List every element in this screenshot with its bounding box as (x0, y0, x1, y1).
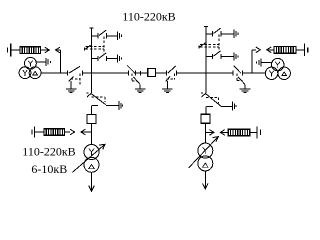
circuit breaker Q3 (jumper) (148, 69, 156, 77)
ground of QS6 (233, 102, 237, 111)
load arrow right (203, 171, 209, 189)
wire jumper mid-left (83, 72, 129, 74)
wire (250, 131, 257, 133)
ground of QSG3 (234, 30, 238, 38)
wire with arrow to line W1 (41, 47, 50, 53)
wire (11, 49, 20, 51)
ground of QS1 knife (66, 89, 77, 93)
svg-text:6-10кВ: 6-10кВ (31, 162, 67, 176)
wire feeder right (251, 50, 253, 73)
ground of QS5 (119, 101, 123, 110)
left bus upper (91, 28, 93, 93)
ground of QSG1 (117, 32, 121, 40)
earthing knife of QS2 (133, 77, 140, 89)
earthing knife of QS5 (86, 93, 91, 97)
wire (135, 72, 147, 74)
neutral ground of T4 (257, 58, 272, 66)
line trap L1 (top left) (20, 47, 41, 54)
earthing knife of QS3 (166, 76, 171, 88)
jumper wire left (41, 72, 67, 74)
linkage dashes QS6 (206, 98, 218, 104)
disconnector QS1 (jumper left) (67, 66, 82, 75)
ground of QS3 knife (162, 89, 173, 93)
disconnector QS2 (jumper, left of breaker) (127, 66, 140, 76)
arrow to consumers left (81, 129, 92, 135)
earthing knife of QS6 (201, 93, 206, 97)
wire (156, 72, 167, 74)
transformer T4 (3-winding, right) (265, 58, 290, 79)
earthing knife right bus (199, 43, 205, 48)
linkage dashes QS3 (166, 74, 174, 80)
line trap L2 (bottom left) (44, 129, 64, 136)
coupling capacitor CC2 (bottom left) (32, 127, 35, 138)
load arrow left (89, 172, 95, 191)
linkage dashes QS2 (132, 74, 137, 82)
arrow to consumers right (206, 130, 214, 136)
right bus top tick (204, 26, 208, 28)
line trap L3 (bottom right) (228, 129, 250, 136)
ground of QS4 knife (240, 89, 251, 93)
left bus to breaker (91, 106, 93, 115)
left bus top tick (90, 27, 94, 29)
earthing switch QSG2 (left bus, lower) (92, 53, 118, 61)
ground of QSG2 (117, 54, 121, 62)
earthing knife of QS4 (238, 77, 245, 89)
linkage dashes left bus (86, 36, 104, 54)
linkage dashes QS5 (92, 97, 105, 102)
earthing knife left bus (85, 45, 91, 50)
ground of QSG4 (234, 52, 238, 60)
line trap L4 (top right) (274, 47, 296, 54)
wire with arrow (line trap branch left) (64, 129, 74, 135)
wire feeder left (59, 50, 61, 73)
arrow from line W1 (56, 47, 61, 53)
wire (296, 49, 304, 51)
arrow from line W2 (top right) (252, 47, 260, 53)
linkage dashes QS1 (71, 74, 80, 85)
coupling capacitor CC4 (top right) (305, 44, 308, 57)
disconnector QS6 (right bus, below jumper) (206, 94, 233, 107)
linkage dashes QS4 (237, 74, 242, 81)
svg-text:110-220кВ: 110-220кВ (22, 145, 75, 159)
earthing switch QSG3 (right bus, upper) (206, 28, 234, 36)
earthing knife of QS1 (69, 76, 74, 88)
circuit breaker Q1 (left) (87, 115, 96, 124)
disconnector QS4 (jumper right) (233, 66, 242, 76)
transformer T3 (right block) (198, 143, 213, 171)
disconnector QS5 (left bus, below jumper) (91, 94, 118, 106)
linkage dashes right bus (200, 34, 219, 52)
wire (35, 131, 44, 133)
transformer T1 (3-winding, left) (19, 57, 41, 78)
coupling capacitor CC3 (bottom right) (257, 126, 260, 138)
wire with arrow to line W2 (267, 47, 274, 53)
earthing switch QSG1 (left bus, upper) (92, 30, 118, 38)
earthing switch QSG4 (right bus, lower) (206, 51, 234, 59)
right bus below breaker (205, 123, 207, 143)
disconnector QS3 (jumper, right of breaker) (166, 66, 176, 76)
OLTC arrow T2 (72, 144, 105, 172)
wire (176, 72, 233, 74)
OLTC arrow T3 (189, 137, 219, 168)
left bus below breaker (91, 124, 93, 145)
circuit breaker Q2 (right) (201, 114, 210, 123)
svg-text:110-220кВ: 110-220кВ (122, 10, 175, 24)
wire with arrow (line trap branch right) (220, 130, 228, 136)
transformer T2 (left block) (84, 145, 99, 173)
right bus to breaker (205, 107, 207, 115)
coupling capacitor CC1 (top left) (8, 44, 11, 57)
right bus upper (205, 27, 207, 93)
neutral ground of T1 (36, 58, 50, 66)
wire jumper right (243, 72, 266, 74)
ground of QS2 knife (135, 89, 146, 93)
